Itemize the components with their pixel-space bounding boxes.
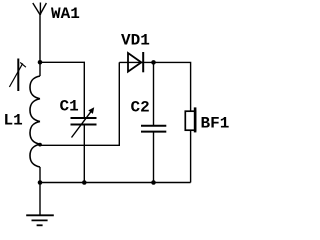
ground [26, 215, 54, 225]
L1 trimmer core symbol [9, 59, 26, 92]
wire BF1 bottom to rail [190, 131, 192, 183]
wire coil bottom to ground [39, 167, 41, 215]
inductor L1 [30, 76, 40, 167]
antenna WA1 [33, 3, 47, 16]
node A junction dot [38, 60, 43, 65]
coil tap wire to diode branch [40, 62, 119, 145]
earphone BF1 [185, 107, 196, 132]
svg-text:C2: C2 [131, 99, 150, 117]
capacitor C1 (variable) [71, 118, 97, 125]
wire diode row [119, 62, 190, 111]
wire node A to C1 branch corner [40, 62, 84, 117]
svg-text:L1: L1 [4, 112, 23, 130]
junction dot diode output [151, 60, 156, 65]
wire antenna down to coil top [39, 15, 41, 77]
svg-text:VD1: VD1 [121, 32, 150, 50]
capacitor C2 [141, 126, 166, 132]
wire C1 bottom to bottom rail [83, 125, 85, 183]
svg-text:WA1: WA1 [51, 5, 80, 23]
junction dot C2 bottom rail [151, 180, 156, 185]
wire C2 branch [153, 62, 155, 125]
junction dot C1 bottom rail [82, 180, 87, 185]
junction dot L1 bottom rail [38, 180, 43, 185]
svg-text:BF1: BF1 [201, 115, 230, 133]
diode VD1 [128, 52, 143, 72]
wire C2 bottom to rail [153, 132, 155, 183]
bottom rail wire [40, 182, 191, 184]
svg-text:C1: C1 [60, 98, 79, 116]
coil tap junction dot [38, 143, 42, 147]
C1 adjustment arrow [72, 107, 95, 137]
